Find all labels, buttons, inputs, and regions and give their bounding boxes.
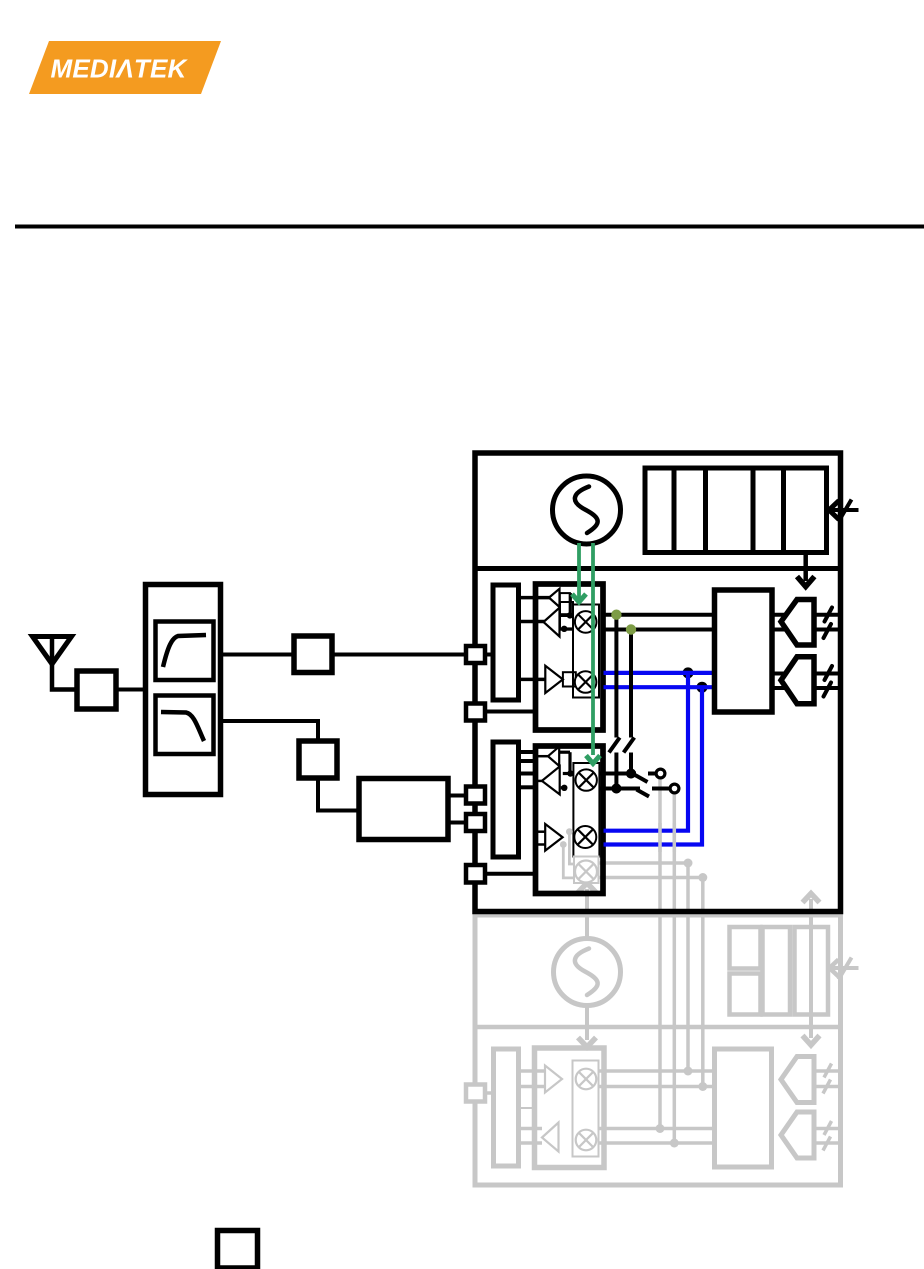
RX1 I/Q wires to ADC — [604, 615, 715, 630]
gray stub wires balun to A3 — [519, 1071, 546, 1143]
gray bus arrow into REG2 with slash — [830, 958, 859, 980]
gray wire OSC2 to mixer (up arrow) — [578, 883, 596, 938]
green LO wire to mixer RX1 (arrow) — [572, 543, 586, 602]
PA driver large triangle — [544, 608, 560, 637]
filter SQ2 — [299, 741, 337, 778]
PA driver small triangle — [549, 589, 560, 607]
wire P1 to balun FL2 — [485, 653, 493, 657]
gray register bank REG2 — [730, 927, 829, 1015]
PA large triangle A2 — [542, 766, 560, 794]
gray mixer column M3 — [573, 1061, 599, 1157]
gray I/Q wires mixer to ADC — [599, 1071, 716, 1143]
diplexer FL1 — [146, 585, 221, 795]
mixer TX2 — [574, 826, 596, 848]
blue TX I/Q wires — [604, 673, 715, 845]
front-end block A2 — [536, 746, 604, 894]
gray front-end block A3 — [535, 1048, 605, 1168]
LNA triangle A2 — [545, 824, 562, 851]
junction dot on blue Q wire — [697, 682, 708, 693]
gray balun FL3 — [494, 1049, 519, 1166]
section divider — [475, 566, 841, 571]
antenna ANT1 — [33, 637, 78, 690]
front-end block A1 — [536, 584, 604, 730]
wire Z1 to diplexer — [116, 688, 145, 692]
gray ADC/DAC block — [715, 1049, 772, 1167]
B1 output wires with slashes — [814, 608, 841, 639]
pentagon buffer B1 input wires — [772, 615, 790, 688]
green LO wire to mixer RX2 (arrow) — [586, 543, 600, 764]
front-end module FEM1 — [359, 779, 448, 840]
internal wires A2 — [559, 752, 573, 791]
wire P2 to block A1 — [485, 710, 535, 714]
filter SQ1 — [294, 636, 332, 673]
LNA triangle A1 — [545, 666, 563, 693]
mixer RX1 — [575, 611, 597, 633]
gray pentagon buffer B3 — [781, 1057, 814, 1103]
transceiver box U1 — [475, 453, 841, 912]
gray LNA triangle — [545, 1066, 562, 1093]
mixer TX1 — [575, 671, 597, 693]
gray oscillator OSC2 — [554, 939, 621, 1006]
PA small triangle A2 — [548, 747, 559, 766]
MediaTek logo — [29, 41, 221, 94]
gray mixer 2G — [575, 861, 597, 883]
node dot olive on RX1 Q wire — [626, 624, 636, 634]
mixer column M1 — [573, 605, 599, 698]
balun FL2 — [493, 585, 519, 700]
gray long vertical wires from upper section — [660, 777, 703, 1143]
port square P2 — [466, 704, 485, 721]
balun FL4 — [493, 742, 519, 857]
gray junction dots — [656, 1067, 708, 1148]
gray pentagon buffer B4 — [781, 1112, 814, 1158]
wire P5 to block A2 — [485, 872, 535, 876]
gray mixer X2 — [576, 1130, 597, 1151]
junction dot on RX2 I wire — [626, 769, 636, 779]
gray wire P6 to balun — [485, 1091, 494, 1095]
matching network Z1 — [77, 671, 116, 709]
pentagon buffer B1 — [781, 600, 814, 646]
gray section divider — [475, 1025, 841, 1030]
wire diplexer LB to SQ2 — [221, 721, 319, 741]
stub wires balun to A2 — [519, 752, 550, 787]
node dot olive on RX1 I wire — [611, 610, 621, 620]
gray mixer X1 — [576, 1069, 597, 1090]
pentagon buffer B2 — [781, 657, 814, 704]
junction dot on blue I wire — [683, 667, 694, 678]
register bank REG1 — [645, 468, 827, 553]
wire FEM to port P4 — [448, 821, 466, 825]
gray output wires with slashes — [814, 1064, 840, 1151]
wire REG1 down arrow — [797, 553, 814, 587]
port square P5 — [466, 865, 485, 883]
gray 2G mixer column extension — [574, 857, 599, 884]
gray transceiver box U2 — [475, 915, 841, 1185]
switch branch wires down — [609, 615, 636, 794]
wire SQ1 to port P1 — [332, 653, 466, 657]
stub wires balun to A1 — [519, 598, 551, 680]
LNA input wires A2 — [535, 832, 546, 845]
gray wire OSC2 down arrow — [578, 1006, 596, 1048]
gain stage boxes A1 — [560, 593, 574, 632]
gray 2G tap wires inside A2 — [560, 828, 574, 878]
gray 2G mixer output wires — [599, 859, 708, 883]
ADC/DAC block U3 — [715, 590, 773, 712]
gray PA triangle — [542, 1123, 559, 1152]
mixer column M2 — [573, 763, 599, 857]
gray wire REG2 up arrow into black box — [803, 894, 820, 1015]
black square bottom legend — [218, 1231, 258, 1269]
gray wire overdraw crossing blue — [660, 823, 674, 852]
port square P3 — [466, 787, 485, 804]
gray wire REG2 down arrow — [803, 1015, 820, 1046]
bus arrow into REG1 with slash — [829, 500, 859, 522]
junction dot on RX2 Q wire — [611, 784, 621, 794]
wire SQ2 to FEM — [318, 778, 359, 811]
port square P1 — [466, 646, 485, 663]
gray port square P6 — [466, 1085, 485, 1102]
LNA gain box A1 — [563, 672, 576, 686]
svg-text:MEDIΛTEK: MEDIΛTEK — [51, 54, 189, 84]
B2 output wires with slashes — [814, 666, 841, 697]
wire diplexer HB to SQ1 — [221, 653, 295, 657]
wire FEM to port P3 — [448, 794, 466, 798]
horizontal rule — [15, 225, 924, 229]
port square P4 — [466, 814, 485, 831]
oscillator OSC1 — [553, 476, 621, 544]
mixer RX2 — [576, 769, 597, 790]
RX2 I/Q wires with switches — [599, 769, 679, 796]
